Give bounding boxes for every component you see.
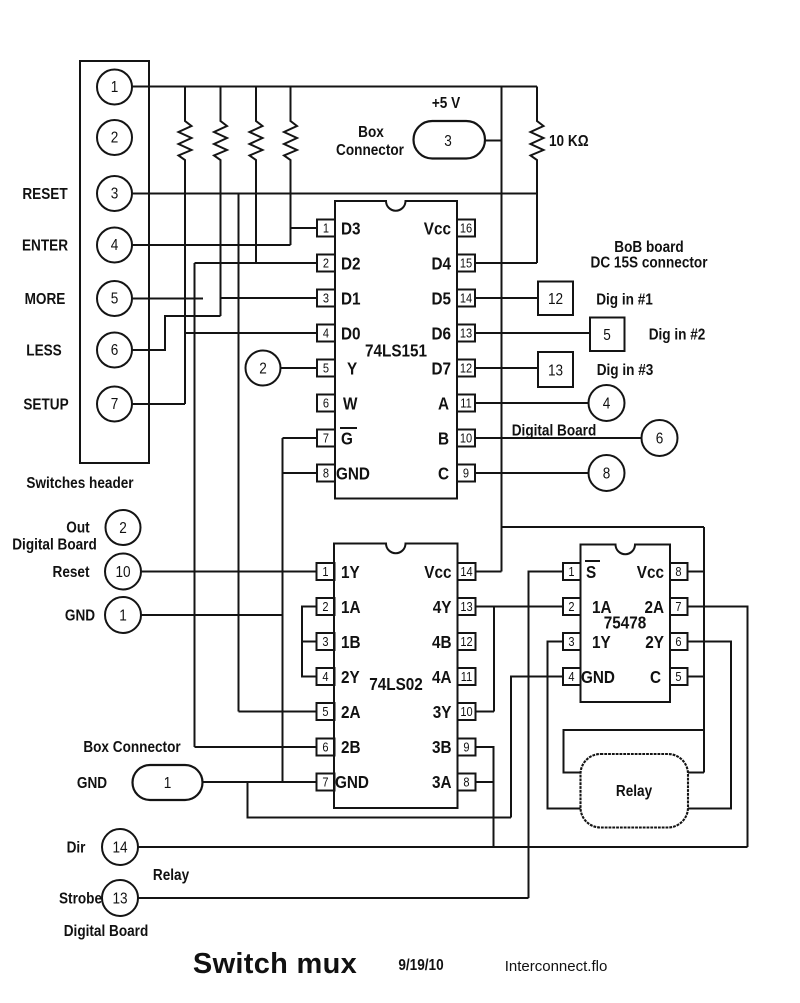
svg-text:2: 2: [323, 256, 329, 271]
node circle 14 (Dir): [102, 829, 138, 865]
svg-text:4: 4: [568, 669, 574, 684]
svg-text:Out: Out: [66, 520, 89, 537]
svg-text:10 KΩ: 10 KΩ: [549, 133, 589, 150]
svg-text:12: 12: [460, 634, 473, 649]
svg-text:Relay: Relay: [616, 783, 653, 800]
svg-text:Vcc: Vcc: [424, 218, 451, 238]
svg-text:13: 13: [460, 599, 473, 614]
svg-text:8: 8: [323, 466, 329, 481]
svg-text:2: 2: [322, 599, 328, 614]
wire: Dir line: [138, 846, 748, 848]
svg-text:4: 4: [111, 237, 119, 254]
wire: 2B input from D2 branch: [195, 746, 317, 748]
svg-text:Reset: Reset: [53, 564, 90, 581]
U3 pin 7 box: [670, 598, 688, 615]
svg-text:LESS: LESS: [26, 343, 62, 360]
wire: 3A stub: [476, 781, 494, 783]
svg-text:3: 3: [111, 186, 119, 203]
U1 pin 4 box: [317, 325, 335, 342]
wire: GND circle 1 to ground vertical: [141, 614, 283, 616]
svg-text:3Y: 3Y: [433, 702, 452, 722]
svg-text:11: 11: [461, 669, 473, 684]
wire: D7 to square 13: [475, 367, 538, 369]
svg-text:74LS151: 74LS151: [365, 340, 427, 360]
wire: 2A to Dir: [688, 607, 748, 848]
wire: ground run under U2: [248, 782, 512, 818]
wire: U2 GND from oval 1: [203, 781, 317, 783]
svg-text:Connector: Connector: [336, 142, 404, 159]
wire: Vcc stub to relay right pin: [688, 772, 704, 774]
svg-text:2A: 2A: [644, 597, 664, 617]
svg-text:75478: 75478: [604, 612, 647, 632]
svg-text:10: 10: [115, 564, 130, 581]
wire: D2 input: [195, 262, 318, 264]
square node 12 (Dig in #1): [538, 282, 573, 316]
node circle 10 (Reset): [105, 554, 141, 590]
square node 13 (Dig in #3): [538, 352, 573, 387]
svg-text:15: 15: [460, 256, 473, 271]
svg-text:Dig in #3: Dig in #3: [597, 362, 654, 379]
wire: D3 input: [291, 227, 318, 229]
resistor R-pullup 3: [250, 87, 263, 264]
wire: Reset circle 10 to U2 pin 1: [141, 571, 317, 573]
svg-text:6: 6: [656, 431, 664, 448]
connector pin circle 3: [97, 176, 132, 211]
svg-text:1A: 1A: [341, 597, 361, 617]
box connector oval 3 (+5V): [414, 121, 486, 159]
svg-text:D5: D5: [431, 288, 451, 308]
wire: U3 GND dogleg: [511, 677, 563, 818]
wire: SETUP to R1/D0: [132, 403, 185, 405]
wire: relay Vcc loop: [564, 730, 705, 773]
wire: A to circle 4: [475, 402, 589, 404]
wire: U2 1B stub: [302, 641, 317, 643]
svg-text:Vcc: Vcc: [637, 562, 664, 582]
svg-text:Switches header: Switches header: [26, 475, 133, 492]
svg-text:14: 14: [460, 564, 473, 579]
svg-text:GND: GND: [77, 775, 107, 792]
wire: Vcc vertical drop: [501, 87, 503, 572]
svg-text:W: W: [343, 393, 358, 413]
svg-text:7: 7: [675, 599, 681, 614]
svg-text:GND: GND: [336, 463, 370, 483]
wire: 2A input from RESET branch: [239, 711, 317, 713]
wire: 3B to Dir vertical: [476, 747, 494, 847]
U3 pin 3 box: [563, 633, 581, 650]
svg-text:6: 6: [111, 342, 119, 359]
wire: U3 Vcc stub: [688, 571, 705, 573]
U2 pin 1 box: [317, 563, 335, 580]
U1 G-bar overline: [340, 427, 357, 429]
svg-text:1: 1: [111, 79, 119, 96]
IC U1 74LS151 body: [335, 201, 457, 499]
wire: D1 input: [221, 297, 318, 299]
svg-text:5: 5: [603, 327, 611, 344]
svg-text:12: 12: [460, 361, 473, 376]
resistor 10K pull-up: [531, 87, 544, 264]
svg-text:D6: D6: [431, 323, 451, 343]
svg-text:1: 1: [323, 221, 329, 236]
svg-text:6: 6: [675, 634, 681, 649]
svg-text:10: 10: [460, 704, 473, 719]
wire: D6 to square 5: [475, 332, 590, 334]
svg-text:2Y: 2Y: [645, 632, 664, 652]
svg-text:SETUP: SETUP: [23, 397, 68, 414]
wire: Vcc vertical at right: [703, 527, 705, 773]
U1 pin 13 box: [457, 325, 475, 342]
svg-text:16: 16: [460, 221, 473, 236]
svg-text:74LS02: 74LS02: [369, 674, 423, 694]
svg-text:5: 5: [322, 704, 328, 719]
U3 pin 5 box: [670, 668, 688, 685]
svg-text:Dig in #1: Dig in #1: [596, 292, 653, 309]
U3 pin 4 box: [563, 668, 581, 685]
resistor R-pullup 1: [179, 87, 192, 405]
wire: RESET to D4/10K: [132, 193, 537, 195]
svg-text:9: 9: [463, 466, 469, 481]
svg-text:MORE: MORE: [25, 291, 66, 308]
wire: U1 GND pin: [283, 472, 318, 474]
svg-text:11: 11: [460, 396, 472, 411]
wire: ground vertical: [282, 438, 284, 782]
U2 pin 4 box: [317, 668, 335, 685]
wire: Y output to circle 2: [281, 367, 318, 369]
svg-text:Digital Board: Digital Board: [512, 423, 597, 440]
U1 pin 15 box: [457, 255, 475, 272]
svg-text:Box Connector: Box Connector: [83, 739, 181, 756]
wire: 3Y stub: [476, 711, 495, 713]
box connector oval 1 (GND): [133, 765, 203, 800]
svg-text:2Y: 2Y: [341, 667, 360, 687]
svg-text:13: 13: [460, 326, 473, 341]
U2 pin 14 box: [458, 563, 476, 580]
U1 pin 12 box: [457, 360, 475, 377]
svg-text:Switch mux: Switch mux: [193, 948, 357, 980]
U2 pin 3 box: [317, 633, 335, 650]
svg-text:Dir: Dir: [67, 840, 86, 857]
svg-text:1Y: 1Y: [341, 562, 360, 582]
svg-text:Vcc: Vcc: [424, 562, 451, 582]
connector pin circle 6: [97, 333, 132, 368]
svg-text:9/19/10: 9/19/10: [398, 957, 443, 974]
U3 S-bar overline: [585, 560, 600, 562]
svg-text:1: 1: [164, 775, 172, 792]
U3 pin 8 box: [670, 563, 688, 580]
U3 pin 6 box: [670, 633, 688, 650]
svg-text:1Y: 1Y: [592, 632, 611, 652]
U1 pin 3 box: [317, 290, 335, 307]
wire: G-bar to ground vertical: [283, 437, 318, 439]
wire: 4Y to 75478 1A: [476, 606, 564, 608]
U1 pin 16 box: [457, 220, 475, 237]
svg-text:8: 8: [603, 466, 611, 483]
U3 pin 2 box: [563, 598, 581, 615]
svg-text:3: 3: [568, 634, 574, 649]
wire: D2 vertical down to 2B: [194, 263, 196, 747]
U1 pin 10 box: [457, 430, 475, 447]
svg-text:2B: 2B: [341, 737, 361, 757]
svg-text:ENTER: ENTER: [22, 238, 68, 255]
svg-text:4A: 4A: [432, 667, 452, 687]
wire: RESET vertical branch to 2A: [238, 194, 240, 712]
svg-text:D7: D7: [431, 358, 451, 378]
node circle 1 (GND): [105, 597, 141, 633]
svg-text:4Y: 4Y: [433, 597, 452, 617]
svg-text:13: 13: [112, 891, 127, 908]
connector pin circle 4: [97, 228, 132, 263]
U2 pin 9 box: [458, 739, 476, 756]
wire: +5V top rail from pin 1: [132, 86, 537, 88]
svg-text:4: 4: [322, 669, 328, 684]
U1 pin 9 box: [457, 465, 475, 482]
svg-text:C: C: [650, 667, 661, 687]
wire: D4 to 10K: [475, 262, 537, 264]
svg-text:2A: 2A: [341, 702, 361, 722]
svg-text:Interconnect.flo: Interconnect.flo: [505, 958, 608, 975]
U1 pin 6 box: [317, 395, 335, 412]
IC U2 74LS02 body: [334, 544, 458, 809]
svg-text:GND: GND: [581, 667, 615, 687]
wire: U2 1A/1B/2Y jumper vertical: [302, 607, 317, 677]
U3 pin 1 box: [563, 563, 581, 580]
U2 pin 10 box: [458, 703, 476, 720]
svg-text:4: 4: [603, 396, 611, 413]
svg-text:5: 5: [323, 361, 329, 376]
connector pin circle 2: [97, 120, 132, 155]
svg-text:10: 10: [460, 431, 473, 446]
svg-text:G: G: [341, 428, 353, 448]
svg-text:D0: D0: [341, 323, 361, 343]
svg-text:2: 2: [111, 130, 119, 147]
wire: MORE to D2 vertical: [132, 298, 203, 300]
svg-text:2: 2: [119, 520, 127, 537]
svg-text:1: 1: [568, 564, 574, 579]
svg-text:4: 4: [323, 326, 329, 341]
svg-text:A: A: [438, 393, 449, 413]
U2 pin 2 box: [317, 598, 335, 615]
U1 pin 14 box: [457, 290, 475, 307]
U2 pin 6 box: [317, 739, 335, 756]
connector pin circle 7: [97, 387, 132, 422]
svg-text:8: 8: [463, 775, 469, 790]
U1 pin 5 box: [317, 360, 335, 377]
svg-text:RESET: RESET: [22, 186, 67, 203]
svg-text:9: 9: [463, 740, 469, 755]
svg-text:4B: 4B: [432, 632, 452, 652]
svg-text:3A: 3A: [432, 772, 452, 792]
wire: Strobe line: [138, 897, 529, 899]
svg-text:C: C: [438, 463, 449, 483]
svg-text:Box: Box: [358, 124, 384, 141]
svg-text:Dig in #2: Dig in #2: [649, 327, 706, 344]
svg-text:+5 V: +5 V: [432, 95, 460, 112]
svg-text:2: 2: [568, 599, 574, 614]
svg-text:6: 6: [322, 740, 328, 755]
svg-text:Digital Board: Digital Board: [12, 537, 97, 554]
svg-text:GND: GND: [65, 608, 95, 625]
resistor R-pullup 2: [214, 87, 227, 317]
wire: LESS dogleg to R2/D1: [132, 316, 221, 350]
wire: oval 3 to +5V rail drop: [484, 140, 502, 142]
U2 pin 13 box: [458, 598, 476, 615]
connector pin circle 1: [97, 70, 132, 105]
relay box: [581, 754, 689, 828]
node circle 2 (Out/Digital Board): [106, 510, 141, 545]
resistor R-pullup 4: [284, 87, 297, 246]
wire: B to circle 6: [475, 437, 642, 439]
svg-text:Strobe: Strobe: [59, 891, 102, 908]
svg-text:3B: 3B: [432, 737, 452, 757]
svg-text:14: 14: [112, 840, 127, 857]
wire: C to circle 8: [475, 472, 589, 474]
svg-text:Digital Board: Digital Board: [64, 923, 149, 940]
node circle 6: [642, 420, 678, 456]
node circle 13 (Strobe): [102, 880, 138, 916]
wire: Vcc horizontal to 75478: [502, 526, 705, 528]
node circle 8: [589, 455, 625, 491]
U1 pin 8 box: [317, 465, 335, 482]
svg-text:1B: 1B: [341, 632, 361, 652]
svg-text:GND: GND: [335, 772, 369, 792]
svg-text:1: 1: [119, 608, 127, 625]
svg-text:7: 7: [323, 431, 329, 446]
svg-text:3: 3: [322, 634, 328, 649]
switches header box: [80, 61, 149, 463]
svg-text:1: 1: [322, 564, 328, 579]
svg-text:5: 5: [675, 669, 681, 684]
wire: D5 to square 12: [475, 297, 538, 299]
svg-text:D3: D3: [341, 218, 361, 238]
wire: 4Y/3Y tie vertical: [493, 607, 495, 712]
svg-text:S: S: [586, 562, 596, 582]
U1 pin 1 box: [317, 220, 335, 237]
IC U3 75478 body: [581, 545, 671, 703]
wire: S-bar to Strobe vertical: [529, 572, 564, 899]
U1 pin 11 box: [457, 395, 475, 412]
svg-text:7: 7: [111, 396, 119, 413]
wire: C stub to Vcc vertical: [688, 676, 705, 678]
svg-text:6: 6: [323, 396, 329, 411]
svg-text:D1: D1: [341, 288, 361, 308]
svg-text:D2: D2: [341, 253, 361, 273]
svg-text:B: B: [438, 428, 449, 448]
wire: 2Y to relay right: [688, 642, 732, 809]
svg-text:2: 2: [259, 361, 267, 378]
U2 pin 5 box: [317, 703, 335, 720]
connector pin circle 5: [97, 281, 132, 316]
U1 pin 7 box: [317, 430, 335, 447]
wire: D0 input: [185, 332, 317, 334]
U2 pin 8 box: [458, 774, 476, 791]
U1 pin 2 box: [317, 255, 335, 272]
svg-text:3: 3: [323, 291, 329, 306]
svg-text:5: 5: [111, 291, 119, 308]
node circle 4: [589, 385, 625, 421]
U2 pin 11 box: [458, 668, 476, 685]
square node 5 (Dig in #2): [590, 318, 625, 352]
wire: U2 Vcc to rail: [476, 571, 502, 573]
svg-text:13: 13: [548, 363, 563, 380]
svg-text:8: 8: [675, 564, 681, 579]
node circle 2 (Y output): [246, 351, 281, 386]
svg-text:Y: Y: [347, 358, 357, 378]
svg-text:DC 15S connector: DC 15S connector: [591, 255, 708, 272]
U2 pin 12 box: [458, 633, 476, 650]
svg-text:Relay: Relay: [153, 867, 190, 884]
svg-text:12: 12: [548, 291, 563, 308]
U2 pin 7 box: [317, 774, 335, 791]
svg-text:3: 3: [444, 133, 452, 150]
svg-text:D4: D4: [431, 253, 451, 273]
svg-text:7: 7: [322, 775, 328, 790]
wire: 1Y dogleg to relay left: [548, 642, 581, 809]
svg-text:14: 14: [460, 291, 473, 306]
wire: ENTER to R4/D3: [132, 244, 291, 246]
